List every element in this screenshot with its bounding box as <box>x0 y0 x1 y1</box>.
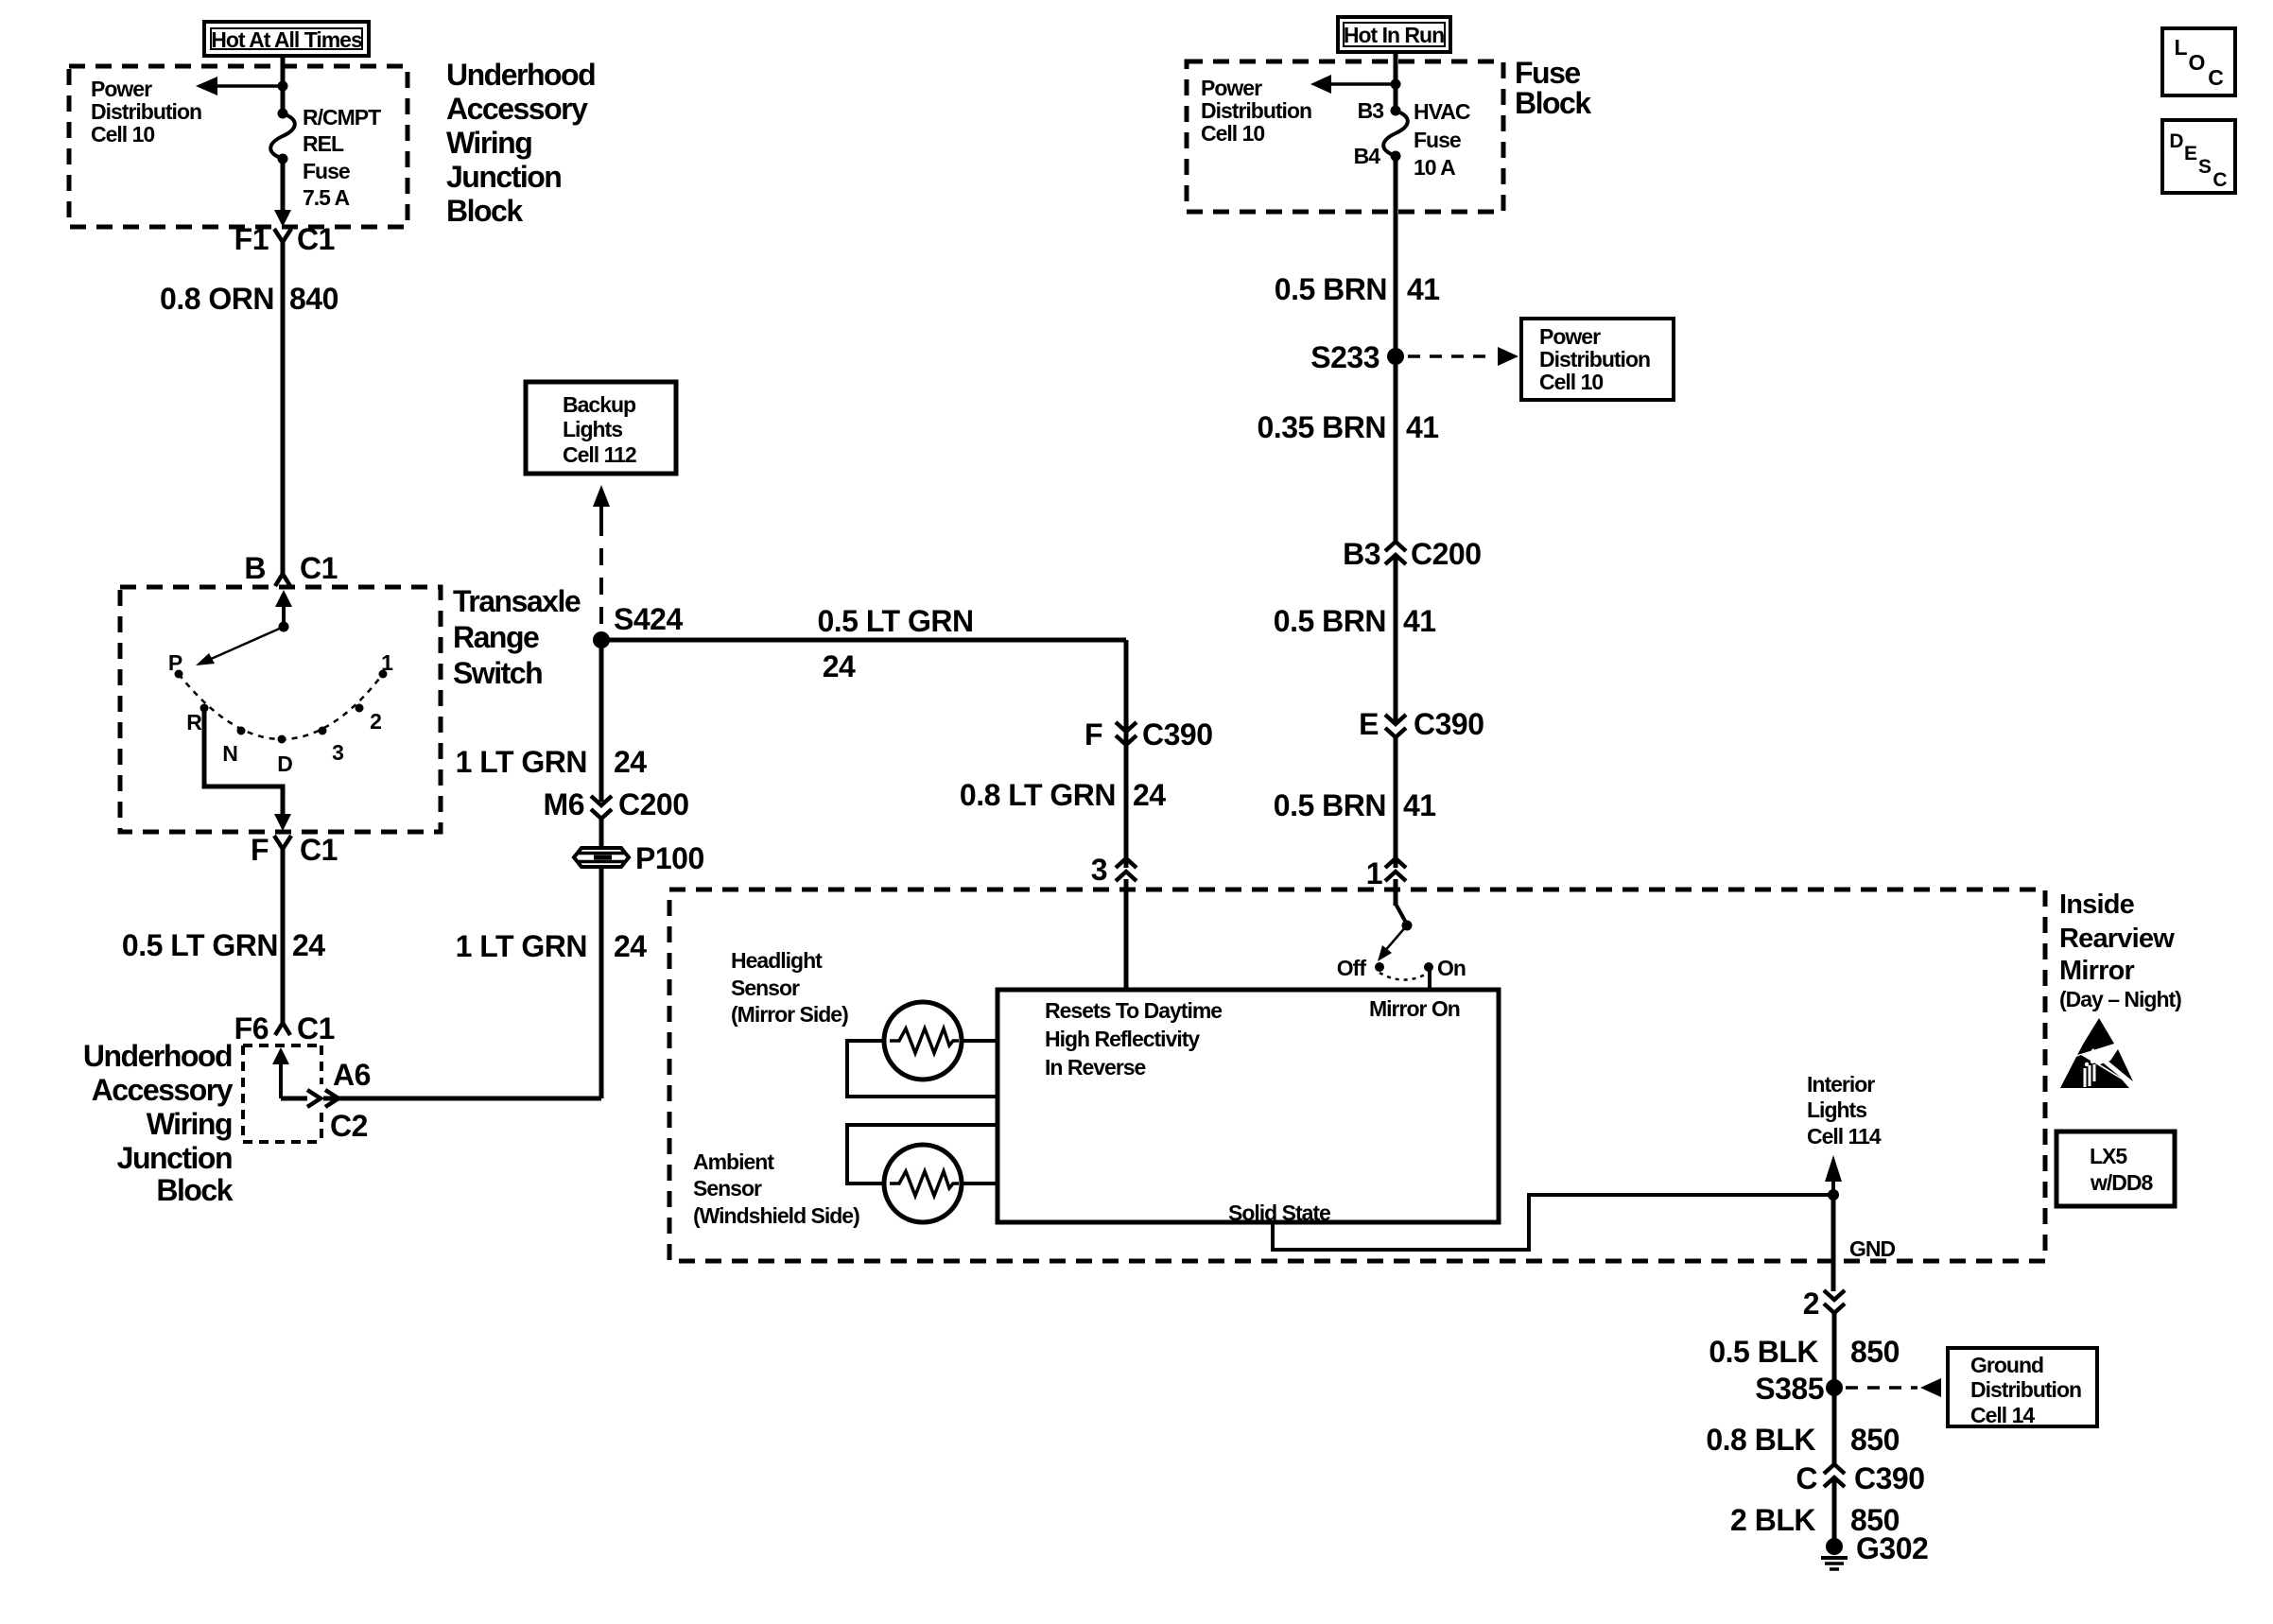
svg-text:(Windshield Side): (Windshield Side) <box>693 1203 859 1228</box>
svg-text:24: 24 <box>1133 778 1166 812</box>
connector F6 C1 <box>234 1011 335 1045</box>
arrow: dashed reference to Ground Distribution Cell 14 <box>1846 1378 1941 1397</box>
arrow: dashed reference up to Backup Lights <box>593 485 610 631</box>
svg-text:Hot In Run: Hot In Run <box>1344 23 1444 47</box>
svg-text:Cell 114: Cell 114 <box>1807 1124 1882 1149</box>
svg-text:0.5 BRN: 0.5 BRN <box>1274 604 1386 638</box>
svg-text:0.5 BLK: 0.5 BLK <box>1709 1335 1818 1369</box>
svg-text:Ambient: Ambient <box>693 1149 774 1174</box>
solid state module box <box>998 990 1499 1222</box>
svg-text:C: C <box>1796 1461 1817 1495</box>
svg-text:E: E <box>2184 143 2197 164</box>
label 0.8 BLK 850 <box>1706 1423 1900 1457</box>
svg-text:0.5 LT GRN: 0.5 LT GRN <box>122 928 278 962</box>
svg-text:C1: C1 <box>300 551 338 585</box>
wire: C390 drop to mirror pin 3 <box>1124 640 1129 868</box>
svg-text:F: F <box>1084 717 1102 752</box>
ESD susceptibility symbol <box>2060 1018 2135 1088</box>
wires: ambient sensor leads <box>847 1125 998 1183</box>
wire 0.5 BRN 41 (fuse to S233) <box>1394 156 1398 356</box>
label 0.5 BLK 850 <box>1709 1335 1900 1369</box>
arrow: dashed reference to Power Distribution Cell 10 <box>1408 347 1518 366</box>
svg-text:P100: P100 <box>635 841 704 875</box>
connector F C390 <box>1084 717 1213 752</box>
svg-text:D: D <box>2169 130 2183 152</box>
switch arm (points to P) <box>196 627 284 665</box>
svg-text:41: 41 <box>1403 604 1436 638</box>
wire: pin 3 into solid state module <box>1124 879 1129 990</box>
wire: from C2 to riser <box>323 1097 601 1101</box>
svg-text:In Reverse: In Reverse <box>1045 1055 1146 1080</box>
svg-text:B4: B4 <box>1354 144 1381 168</box>
svg-text:41: 41 <box>1407 272 1440 306</box>
svg-text:D: D <box>277 752 292 776</box>
label Transaxle Range Switch <box>453 584 581 690</box>
Hot At All Times label box <box>204 22 369 56</box>
svg-text:Switch: Switch <box>453 656 542 690</box>
svg-text:41: 41 <box>1403 788 1436 822</box>
svg-text:B3: B3 <box>1358 98 1384 123</box>
svg-text:0.8 LT GRN: 0.8 LT GRN <box>960 778 1116 812</box>
wire: feed from Hot At All Times into junction block <box>281 56 286 113</box>
wire: Hot In Run feed <box>1394 52 1398 111</box>
label Underhood Accessory Wiring Junction Block (lower left) <box>83 1039 234 1207</box>
svg-text:C1: C1 <box>300 833 338 867</box>
svg-text:S424: S424 <box>614 602 683 636</box>
connector F C1 <box>251 833 338 867</box>
svg-text:Solid State: Solid State <box>1228 1201 1330 1225</box>
svg-text:Mirror On: Mirror On <box>1369 996 1460 1021</box>
LOC reference box <box>2162 28 2235 95</box>
svg-text:Fuse: Fuse <box>1515 56 1580 90</box>
svg-text:1: 1 <box>381 650 393 675</box>
switch position labels <box>168 650 393 776</box>
label Fuse Block <box>1515 56 1591 120</box>
svg-text:Accessory: Accessory <box>92 1073 234 1107</box>
label 0.5 BRN 41 (lower) <box>1274 788 1436 822</box>
Ground Distribution Cell 14 box <box>1948 1348 2097 1427</box>
label 1 LT GRN 24 (upper) <box>456 745 648 779</box>
svg-text:(Mirror Side): (Mirror Side) <box>731 1002 848 1027</box>
connector C C390 <box>1796 1461 1924 1495</box>
connector B C1 <box>244 551 338 586</box>
switch position contacts P R N D 3 2 1 <box>175 670 388 744</box>
svg-text:Headlight: Headlight <box>731 948 823 973</box>
label 0.35 BRN 41 <box>1258 410 1439 444</box>
svg-text:C1: C1 <box>297 222 335 256</box>
ground G302 <box>1821 1531 1928 1569</box>
svg-text:C390: C390 <box>1414 707 1484 741</box>
connector M6 C200 <box>544 787 689 821</box>
node: switch arm pivot <box>279 622 289 632</box>
svg-text:Underhood: Underhood <box>83 1039 232 1073</box>
Power Distribution Cell 10 box <box>1521 319 1674 400</box>
svg-text:B: B <box>244 551 266 585</box>
fuse HVAC 10 A (terminals B3/B4) <box>1354 98 1408 168</box>
wire 0.5 LT GRN 24 (S424 to C390) <box>601 638 1126 643</box>
wire: fuse output with arrow to F1 <box>274 159 291 227</box>
svg-text:Cell 10: Cell 10 <box>1201 121 1264 146</box>
svg-text:Wiring: Wiring <box>147 1107 232 1141</box>
svg-text:0.5 LT GRN: 0.5 LT GRN <box>817 604 973 638</box>
svg-text:840: 840 <box>289 282 338 316</box>
node S424 <box>593 602 683 648</box>
Inside Rearview Mirror dashed outline <box>669 890 2045 1261</box>
label Interior Lights Cell 114 <box>1807 1072 1882 1149</box>
svg-text:41: 41 <box>1406 410 1439 444</box>
svg-text:Accessory: Accessory <box>446 92 588 126</box>
label 0.5 BRN 41 (middle) <box>1274 604 1436 638</box>
svg-text:0.8 BLK: 0.8 BLK <box>1706 1423 1815 1457</box>
svg-text:F: F <box>251 833 269 867</box>
node S233 <box>1310 340 1404 374</box>
svg-text:HVAC: HVAC <box>1414 99 1470 124</box>
label Power Distribution Cell 10 (left box) <box>91 77 201 147</box>
Transaxle Range Switch dashed box <box>120 587 441 832</box>
svg-text:24: 24 <box>614 929 647 963</box>
headlight sensor (photoresistor) <box>884 1002 962 1080</box>
svg-text:Hot At All Times: Hot At All Times <box>211 27 362 52</box>
svg-text:S233: S233 <box>1310 340 1379 374</box>
svg-text:S385: S385 <box>1755 1372 1824 1406</box>
label HVAC Fuse 10 A <box>1414 99 1470 180</box>
svg-text:F6: F6 <box>234 1011 269 1045</box>
svg-text:Block: Block <box>446 194 523 228</box>
label R/CMPT REL Fuse 7.5 A <box>303 105 381 210</box>
svg-text:A6: A6 <box>333 1058 371 1092</box>
wire: GND out of mirror <box>1831 1195 1836 1291</box>
svg-text:Junction: Junction <box>117 1141 232 1175</box>
label 0.5 LT GRN 24 (horizontal run) <box>817 604 973 683</box>
wire 0.35 BRN 41 <box>1394 356 1398 542</box>
connector E C390 <box>1359 707 1484 741</box>
svg-text:Resets To Daytime: Resets To Daytime <box>1045 998 1222 1023</box>
svg-text:Power: Power <box>1201 76 1262 100</box>
svg-text:24: 24 <box>823 649 856 683</box>
label Power Distribution Cell 10 (fuse block) <box>1201 76 1311 146</box>
svg-text:L: L <box>2174 35 2187 60</box>
label 0.5 BRN 41 (top) <box>1275 272 1440 306</box>
label Resets To Daytime High Reflectivity In Reverse <box>1045 998 1222 1080</box>
svg-text:Junction: Junction <box>446 160 561 194</box>
svg-text:Inside: Inside <box>2059 890 2135 920</box>
svg-text:850: 850 <box>1850 1335 1900 1369</box>
arrow: reference to Interior Lights Cell 114 <box>1825 1155 1842 1195</box>
svg-text:2: 2 <box>370 709 381 734</box>
svg-text:LX5: LX5 <box>2090 1144 2127 1168</box>
label 0.8 ORN 840 <box>160 282 338 316</box>
svg-text:0.35 BRN: 0.35 BRN <box>1258 410 1387 444</box>
svg-text:F1: F1 <box>234 222 269 256</box>
svg-text:N: N <box>222 741 237 766</box>
label 0.5 LT GRN 24 <box>122 928 325 962</box>
svg-text:Wiring: Wiring <box>446 126 531 160</box>
svg-text:24: 24 <box>614 745 647 779</box>
wire: On contact to solid state <box>1428 967 1431 990</box>
connector F1 C1 <box>234 222 335 256</box>
svg-text:C1: C1 <box>297 1011 335 1045</box>
dashed arc through switch positions <box>179 674 383 739</box>
svg-text:Distribution: Distribution <box>1539 347 1650 371</box>
svg-text:7.5 A: 7.5 A <box>303 185 350 210</box>
svg-text:P: P <box>168 650 182 675</box>
wire 0.5 BLK 850 <box>1832 1313 1837 1388</box>
svg-text:C: C <box>2212 169 2227 191</box>
svg-text:B3: B3 <box>1343 537 1380 571</box>
connector B3 C200 <box>1343 537 1481 571</box>
svg-text:Lights: Lights <box>1807 1097 1866 1122</box>
arrow: into junction block at F6 <box>272 1047 289 1098</box>
svg-text:R/CMPT: R/CMPT <box>303 105 381 130</box>
connector A6 C2 (chevrons) <box>307 1058 371 1143</box>
ambient sensor (photoresistor) <box>884 1145 962 1222</box>
pin 1 of mirror connector <box>1366 856 1406 890</box>
svg-text:GND: GND <box>1849 1236 1896 1261</box>
svg-text:Rearview: Rearview <box>2059 924 2175 954</box>
svg-text:C200: C200 <box>1411 537 1482 571</box>
Fuse Block dashed outline <box>1187 61 1503 212</box>
svg-text:On: On <box>1437 956 1466 980</box>
svg-text:Backup: Backup <box>563 392 636 417</box>
DESC reference box <box>2162 120 2235 193</box>
arrow: into switch common (pointing up at B) <box>275 590 292 627</box>
svg-text:Distribution: Distribution <box>91 99 201 124</box>
node: feed junction <box>1391 79 1401 90</box>
label 2 BLK 850 <box>1730 1503 1900 1537</box>
grommet P100 <box>574 841 704 875</box>
svg-text:Range: Range <box>453 620 539 654</box>
Underhood Accessory Wiring Junction Block dashed outline (top left) <box>69 66 408 227</box>
wire: from R contact down and out of switch <box>204 708 291 831</box>
svg-text:High Reflectivity: High Reflectivity <box>1045 1027 1200 1051</box>
label 1 LT GRN 24 (lower) <box>456 929 648 963</box>
svg-text:2: 2 <box>1803 1287 1819 1321</box>
svg-text:C: C <box>2208 65 2223 90</box>
wire into P100 <box>599 819 604 848</box>
svg-text:(Day – Night): (Day – Night) <box>2059 987 2181 1011</box>
svg-text:3: 3 <box>332 740 343 765</box>
svg-text:1: 1 <box>1366 856 1382 890</box>
svg-text:1 LT GRN: 1 LT GRN <box>456 929 587 963</box>
svg-text:Transaxle: Transaxle <box>453 584 581 618</box>
svg-text:Sensor: Sensor <box>693 1176 762 1201</box>
svg-text:G302: G302 <box>1856 1531 1928 1565</box>
svg-text:Cell 112: Cell 112 <box>563 442 636 467</box>
fuse R/CMPT REL 7.5 A <box>270 109 295 164</box>
svg-text:M6: M6 <box>544 787 584 821</box>
svg-text:S: S <box>2198 156 2212 178</box>
svg-text:Interior: Interior <box>1807 1072 1875 1097</box>
svg-text:C200: C200 <box>618 787 689 821</box>
svg-text:R: R <box>186 710 202 734</box>
svg-text:Power: Power <box>91 77 152 101</box>
wire: pin 1 to mirror switch <box>1394 879 1398 906</box>
wire 0.8 ORN 840 <box>281 242 286 575</box>
pin 2 of mirror connector <box>1803 1287 1845 1321</box>
wire 1 LT GRN 24 (S424 down) <box>599 640 604 802</box>
svg-text:C2: C2 <box>330 1109 368 1143</box>
svg-text:850: 850 <box>1850 1423 1900 1457</box>
arrow: to Power Distribution Cell 10 (left) <box>196 77 283 95</box>
svg-text:Sensor: Sensor <box>731 976 800 1000</box>
svg-text:C390: C390 <box>1854 1461 1925 1495</box>
svg-text:O: O <box>2189 50 2205 75</box>
arrow: to Power Distribution Cell 10 (fuse block) <box>1310 75 1396 94</box>
label Headlight Sensor (Mirror Side) <box>731 948 848 1027</box>
svg-text:Underhood: Underhood <box>446 58 595 92</box>
svg-text:0.5 BRN: 0.5 BRN <box>1274 788 1386 822</box>
label Ambient Sensor (Windshield Side) <box>693 1149 859 1228</box>
svg-text:Block: Block <box>1515 86 1591 120</box>
node: junction to power distribution <box>278 81 288 92</box>
svg-text:2 BLK: 2 BLK <box>1730 1503 1815 1537</box>
wire: solid state ground output <box>1273 1195 1833 1250</box>
svg-text:Distribution: Distribution <box>1970 1377 2081 1402</box>
Underhood Accessory Wiring Junction Block dashed outline (small, lower left) <box>243 1045 321 1142</box>
wire 2 BLK 850 <box>1832 1480 1837 1546</box>
svg-text:Distribution: Distribution <box>1201 98 1311 123</box>
svg-text:REL: REL <box>303 131 344 156</box>
svg-text:10 A: 10 A <box>1414 155 1455 180</box>
node S385 <box>1755 1372 1843 1406</box>
svg-text:Ground: Ground <box>1970 1353 2043 1377</box>
label Inside Rearview Mirror (Day-Night) <box>2059 890 2181 1011</box>
LX5 w/DD8 box <box>2056 1132 2175 1206</box>
svg-text:Cell 10: Cell 10 <box>91 122 154 147</box>
svg-text:24: 24 <box>292 928 325 962</box>
svg-text:Cell 10: Cell 10 <box>1539 370 1603 394</box>
wire 0.8 BLK 850 <box>1832 1388 1837 1464</box>
svg-text:Mirror: Mirror <box>2059 956 2135 986</box>
svg-text:Fuse: Fuse <box>1414 128 1461 152</box>
svg-text:0.8 ORN: 0.8 ORN <box>160 282 274 316</box>
label Underhood Accessory Wiring Junction Block (top) <box>446 58 595 228</box>
wires: headlight sensor leads <box>847 1041 998 1097</box>
wire 0.5 BRN 41 (C390 to mirror pin 1) <box>1394 738 1398 868</box>
svg-text:Off: Off <box>1337 956 1367 980</box>
Backup Lights Cell 112 box <box>526 382 676 474</box>
svg-text:Power: Power <box>1539 324 1601 349</box>
svg-text:3: 3 <box>1091 853 1107 887</box>
wire 0.5 LT GRN 24 (left) <box>281 849 286 1024</box>
svg-text:E: E <box>1359 707 1379 741</box>
svg-text:Lights: Lights <box>563 417 622 441</box>
wire: junction block out to A6/C2 <box>281 1097 307 1101</box>
svg-text:Block: Block <box>156 1173 233 1207</box>
svg-text:w/DD8: w/DD8 <box>2090 1170 2154 1195</box>
label 0.8 LT GRN 24 <box>960 778 1166 812</box>
wire 1 LT GRN 24 (P100 down to A6 run) <box>599 867 604 1098</box>
node: ground junction <box>1828 1189 1839 1201</box>
svg-text:Fuse: Fuse <box>303 159 350 183</box>
Hot In Run label box <box>1338 17 1450 52</box>
svg-text:Cell 14: Cell 14 <box>1970 1403 2035 1427</box>
mirror on/off switch <box>1337 904 1466 980</box>
svg-text:1 LT GRN: 1 LT GRN <box>456 745 587 779</box>
svg-text:C390: C390 <box>1142 717 1213 752</box>
svg-text:0.5 BRN: 0.5 BRN <box>1275 272 1387 306</box>
pin 3 of mirror connector <box>1091 853 1136 887</box>
wire 0.5 BRN 41 (C200 to C390) <box>1394 558 1398 725</box>
